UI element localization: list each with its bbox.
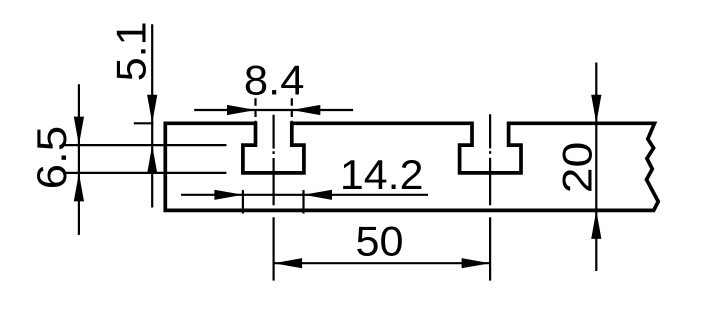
left extension line at slot step level (y=145.1) [64,144,227,146]
dimension 5.1: dimension line [151,24,153,207]
dimension 50: left arrow [274,258,303,268]
dimension 6.5: up arrow [74,173,84,202]
dimension 5.1: up arrow [147,145,157,174]
dimension 50: dimension line [274,262,491,264]
left extension line at slot bottom level (y=172.9) [64,172,227,174]
dimension 14.2: dimension line [181,194,428,196]
dimension 14.2: extension line left [242,190,244,213]
svg-text:14.2: 14.2 [340,151,424,198]
svg-text:6.5: 6.5 [28,126,75,190]
dimension 20: dimension line [595,63,597,272]
dimension 5.1: top-edge extension tick [134,122,154,124]
dimension 50: extension line right (slot2 center) [489,217,491,280]
svg-text:50: 50 [356,218,404,265]
dimension 20: down arrow [591,95,601,124]
svg-text:20: 20 [553,142,600,194]
dimension 14.2: extension line right [302,190,304,213]
dimension 8.4: right arrow [292,105,321,115]
dimension 6.5: dimension line [78,84,80,235]
dimension 8.4: dimension line [194,109,353,111]
profile outline (T-slot plate cross-section) [165,123,658,210]
dimension 6.5: down arrow [74,117,84,146]
dimension 14.2: left arrow [214,190,243,200]
dimension 50: extension line left (slot1 center) [273,217,275,280]
dimension 8.4: dashed extension line left [254,98,256,122]
dimension 20: up arrow [591,210,601,239]
dimension 5.1: down arrow [147,95,157,124]
dimension 50: right arrow [462,258,491,268]
centerline slot 2 [489,114,491,205]
dimension 14.2: right arrow [304,190,333,200]
centerline slot 1 [273,115,275,206]
svg-text:5.1: 5.1 [107,21,154,81]
dimension 8.4: dashed extension line right [291,98,293,122]
svg-text:8.4: 8.4 [244,56,305,103]
dimension 8.4: left arrow [227,105,256,115]
